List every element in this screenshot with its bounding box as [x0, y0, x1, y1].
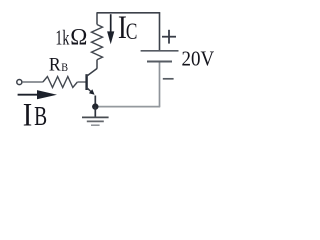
- ground line 3: [91, 124, 100, 126]
- resistor RB zigzag: [43, 77, 77, 88]
- battery long plate (+): [141, 50, 179, 52]
- wire input to RB: [22, 81, 43, 83]
- arrow IC: [107, 14, 114, 44]
- resistor 1kΩ top lead: [96, 13, 98, 25]
- battery short plate (-): [147, 61, 172, 63]
- svg-text:I: I: [23, 97, 33, 133]
- wire bottom rail: [95, 106, 160, 108]
- ground stub: [94, 107, 96, 118]
- wire right rail upper: [159, 12, 161, 50]
- svg-text:B: B: [34, 101, 47, 131]
- wire RB to base: [77, 81, 85, 83]
- plus sign: [162, 30, 176, 44]
- svg-text:1k: 1k: [55, 26, 69, 50]
- transistor base bar: [85, 74, 87, 90]
- ground line 2: [87, 120, 104, 122]
- svg-text:20V: 20V: [182, 47, 215, 70]
- resistor 1kΩ bottom lead: [96, 60, 98, 69]
- transistor emitter diagonal with arrow: [86, 87, 94, 94]
- svg-text:R: R: [49, 55, 61, 76]
- ground line 1: [82, 116, 109, 118]
- resistor 1kΩ zigzag: [92, 25, 103, 60]
- input terminal circle: [17, 80, 22, 85]
- wire top rail: [97, 12, 161, 14]
- svg-text:Ω: Ω: [70, 25, 87, 50]
- wire right rail lower: [159, 63, 161, 107]
- junction dot: [92, 103, 98, 109]
- svg-text:B: B: [61, 60, 68, 74]
- arrow IB: [18, 90, 57, 99]
- minus sign: [163, 78, 174, 80]
- svg-text:C: C: [126, 19, 137, 44]
- wire emitter vertical: [94, 96, 96, 107]
- transistor collector diagonal: [86, 69, 97, 77]
